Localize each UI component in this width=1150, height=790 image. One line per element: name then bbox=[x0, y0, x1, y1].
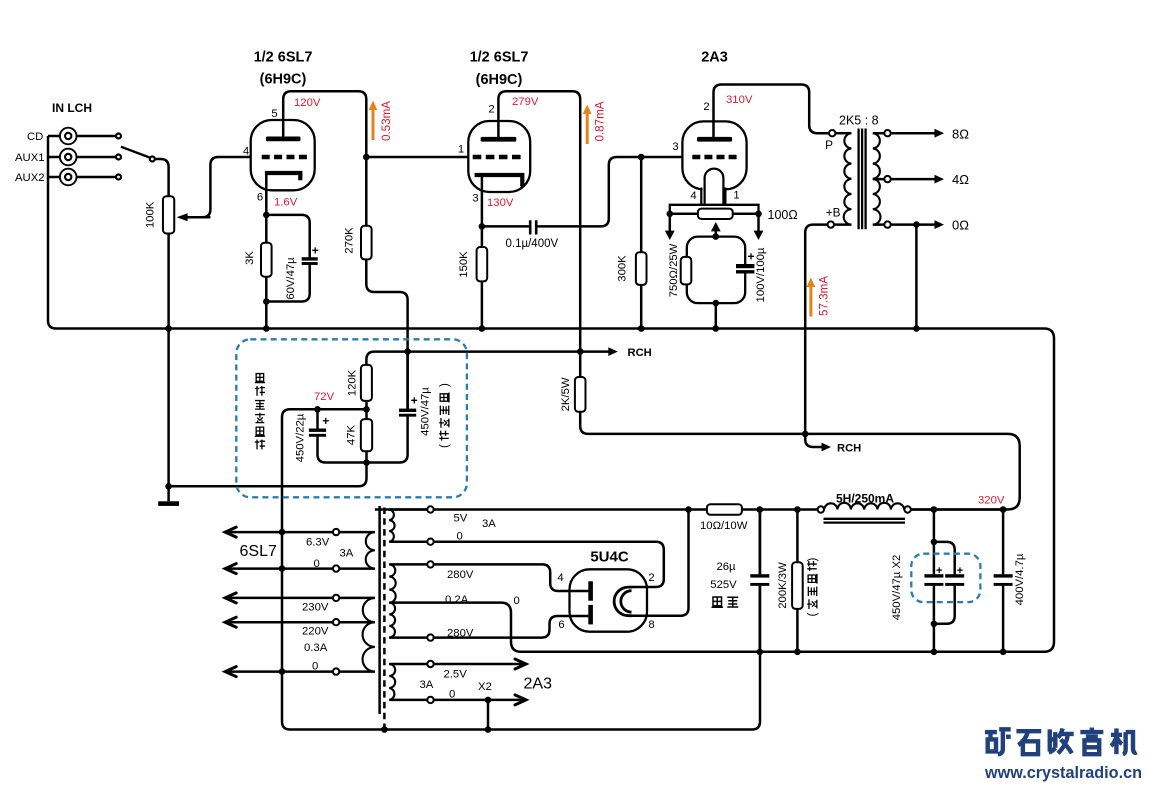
V1a grid (dashed) bbox=[262, 155, 307, 160]
label filament protection module CJK bbox=[255, 374, 265, 383]
wire 450V/47u decoupling cap branch bbox=[367, 352, 408, 463]
svg-text:4: 4 bbox=[243, 146, 249, 158]
svg-text:2.5V: 2.5V bbox=[444, 669, 468, 681]
svg-text:): ) bbox=[439, 383, 451, 387]
input jack AUX2 bbox=[60, 169, 77, 186]
capacitor C8 400V/4.7u bbox=[1000, 576, 1006, 585]
T1 primary terminals bbox=[333, 529, 339, 535]
svg-text:130V: 130V bbox=[487, 197, 514, 209]
wire 72V node row to 47K top bbox=[318, 408, 367, 411]
wire 72V node down to 6.3V heater line and to bottom return bbox=[282, 409, 760, 729]
orange current arrow 0.87mA bbox=[586, 112, 589, 144]
wire 450V/47u X2 split branches bbox=[934, 510, 955, 652]
wire 5V/2.5V winding leads + 2A3 filament arrows bbox=[389, 510, 525, 700]
svg-text:0.1µ/400V: 0.1µ/400V bbox=[506, 238, 559, 250]
wire bias loop bottom to ground bus bbox=[715, 303, 718, 328]
svg-text:4Ω: 4Ω bbox=[952, 172, 969, 187]
wire 2.5V X2 return drop bbox=[487, 700, 490, 730]
wire B+ rail from 5V winding through filter bbox=[434, 508, 1007, 511]
svg-text:2: 2 bbox=[703, 101, 709, 113]
T1 primary mains winding 230V/220V/0 bbox=[363, 598, 375, 672]
wire V1b plate riser to RCH/decoupled B+ node and 2K/5W down to B+ line bbox=[498, 91, 1019, 509]
svg-text:www.crystalradio.cn: www.crystalradio.cn bbox=[984, 763, 1142, 782]
wire 2A3 filament pins bar bbox=[670, 205, 759, 214]
wire 5U4C pin4 to 280V top tap bbox=[434, 564, 592, 591]
2A3 base neck opening bbox=[703, 187, 725, 192]
svg-text:100V/100µ: 100V/100µ bbox=[755, 247, 767, 302]
T2 P terminal bbox=[829, 130, 835, 136]
svg-text:8Ω: 8Ω bbox=[952, 126, 969, 141]
svg-text:+B: +B bbox=[826, 206, 841, 220]
svg-text:0: 0 bbox=[457, 531, 463, 543]
resistor R4 150K V1b cathode bbox=[477, 247, 488, 281]
svg-text:+: + bbox=[957, 565, 963, 577]
wire AUX2 jack line bbox=[48, 176, 119, 179]
svg-text:3: 3 bbox=[672, 141, 678, 153]
wire 26u oil cap column bbox=[759, 510, 762, 652]
arrows 2A3 filament drop bbox=[670, 214, 759, 231]
wire V1a grid row junction to V1b grid bbox=[366, 156, 468, 159]
svg-text:120V: 120V bbox=[294, 97, 321, 109]
input jack CD bbox=[60, 128, 77, 145]
svg-text:450V/22µ: 450V/22µ bbox=[294, 413, 306, 462]
svg-text:2K5 : 8: 2K5 : 8 bbox=[839, 114, 879, 128]
svg-text:4: 4 bbox=[557, 572, 563, 584]
svg-text:120K: 120K bbox=[346, 369, 358, 396]
resistor R7 47K divider bbox=[361, 419, 372, 451]
svg-text:200K/3W: 200K/3W bbox=[777, 562, 789, 609]
output transformer T2 core bbox=[859, 129, 866, 230]
svg-text:310V: 310V bbox=[726, 94, 753, 106]
2A3 grid (dashed) bbox=[692, 155, 736, 160]
svg-text:8: 8 bbox=[648, 619, 654, 631]
triode V1b envelope (1/2 6SL7) bbox=[468, 121, 530, 192]
svg-text:6: 6 bbox=[257, 192, 263, 204]
T1 secondary HV winding 280-0-280 bbox=[389, 564, 396, 637]
wire 300K from grid row to ground bus bbox=[640, 157, 643, 329]
svg-text:3K: 3K bbox=[244, 251, 256, 265]
arrows heater 6.3V to 6SL7 bbox=[225, 527, 236, 537]
wire 5U4C pin6 to 280V bottom tap bbox=[434, 616, 592, 638]
capacitor C1 60V/47u cathode bypass bbox=[307, 259, 313, 264]
capacitor C7a 450V/47u X2 bbox=[931, 576, 937, 585]
svg-text:+: + bbox=[312, 244, 319, 258]
wire OPT P lead bbox=[836, 132, 852, 135]
orange current arrow 0.53mA bbox=[372, 108, 375, 140]
arrow RCH right-channel bbox=[822, 443, 832, 452]
switch blade bbox=[121, 147, 150, 158]
wire 2A3 plate up over to OPT P terminal bbox=[714, 85, 829, 139]
V1b grid (dashed) bbox=[473, 155, 521, 160]
arrow RCH left-channel bbox=[608, 347, 618, 356]
arrows mains 230V/220V/0 bbox=[225, 593, 236, 603]
label (decoupling cap) CJK bbox=[439, 383, 451, 448]
wire mains winding 230V/220V/0 lines bbox=[226, 598, 375, 672]
svg-text:1: 1 bbox=[458, 144, 464, 156]
svg-text:220V: 220V bbox=[302, 626, 329, 638]
choke L1 core bbox=[824, 519, 906, 523]
svg-text:1: 1 bbox=[733, 190, 739, 202]
svg-text:6.3V: 6.3V bbox=[306, 537, 330, 549]
wire input left bus + ground bus + right drop + bottom rail + HV center tap riser bbox=[48, 136, 1054, 652]
resistor VR2 100R hum pot bbox=[698, 209, 733, 219]
choke terminals bbox=[818, 506, 824, 512]
T1 secondary 2.5V winding bbox=[389, 664, 395, 700]
resistor R10 10R/10W bbox=[707, 504, 742, 515]
svg-text:0: 0 bbox=[314, 558, 320, 570]
V1a cathode bbox=[265, 173, 300, 180]
svg-text:0: 0 bbox=[312, 661, 318, 673]
svg-text:5: 5 bbox=[271, 108, 277, 120]
svg-text:3A: 3A bbox=[420, 679, 434, 691]
capacitor C6 26u/525V oil can bbox=[757, 576, 763, 585]
svg-text:0.87mA: 0.87mA bbox=[594, 101, 607, 141]
svg-text:1.6V: 1.6V bbox=[274, 197, 298, 209]
svg-text:60V/47µ: 60V/47µ bbox=[285, 257, 297, 300]
wire 47K/120K column bbox=[365, 402, 368, 463]
VR2 wiper up arrow bbox=[711, 222, 721, 231]
svg-text:280V: 280V bbox=[447, 628, 474, 640]
svg-text:26µ: 26µ bbox=[716, 561, 736, 573]
svg-text:RCH: RCH bbox=[837, 443, 861, 455]
VR1 wiper arrow bbox=[186, 216, 210, 219]
T1 secondary terminals bbox=[427, 506, 433, 512]
svg-text:47K: 47K bbox=[345, 424, 357, 445]
2A3 plate bbox=[697, 137, 732, 142]
T1 secondary 5V winding bbox=[389, 510, 394, 542]
wire OPT secondary tap leads with 0-ohm ground drop bbox=[873, 133, 940, 328]
svg-text:57.3mA: 57.3mA bbox=[818, 276, 831, 316]
svg-text:AUX1: AUX1 bbox=[15, 152, 45, 164]
svg-text:+: + bbox=[936, 565, 942, 577]
power transformer T1 core (solid) bbox=[378, 506, 381, 714]
svg-text:525V: 525V bbox=[710, 579, 737, 591]
label (bleeder resistor) CJK bbox=[807, 558, 819, 617]
svg-text:(6H9C): (6H9C) bbox=[476, 72, 523, 88]
wire V1a cathode bypass branch (3K || 60V/47u) bbox=[266, 215, 309, 302]
wire 200K bleeder column bbox=[796, 510, 799, 652]
output transformer T2 secondary winding bbox=[873, 133, 881, 224]
svg-text:P: P bbox=[825, 138, 833, 152]
svg-text:230V: 230V bbox=[302, 602, 329, 614]
power transformer T1 shield (dashed) to ground return bbox=[383, 508, 386, 730]
svg-text:150K: 150K bbox=[458, 251, 470, 278]
svg-text:750Ω/25W: 750Ω/25W bbox=[668, 243, 680, 297]
svg-text:1/2 6SL7: 1/2 6SL7 bbox=[470, 50, 529, 66]
output transformer T2 primary winding bbox=[844, 133, 852, 224]
wire CD jack line bbox=[48, 135, 119, 138]
T1 primary heater winding 6.3V bbox=[366, 532, 375, 569]
resistor R3 270K plate load V1a bbox=[361, 226, 372, 260]
svg-text:X2: X2 bbox=[478, 681, 492, 693]
svg-text:RCH: RCH bbox=[628, 347, 652, 359]
svg-text:0: 0 bbox=[449, 689, 455, 701]
svg-text:0.3A: 0.3A bbox=[304, 642, 328, 654]
capacitor C5 100V/100u 2A3 cathode bypass bbox=[742, 266, 748, 272]
svg-text:(: ( bbox=[807, 613, 819, 617]
resistor R8 2K/5W decoupling bbox=[575, 377, 586, 412]
triode V1a envelope (1/2 6SL7) bbox=[251, 120, 315, 190]
svg-text:CD: CD bbox=[27, 131, 43, 143]
resistor R5 300K 2A3 grid leak bbox=[636, 252, 647, 285]
orange current arrow 57.3mA bbox=[809, 285, 812, 317]
svg-text:IN LCH: IN LCH bbox=[52, 101, 92, 115]
wire cathode bias loop (750R || 100V/100u) bbox=[687, 237, 745, 304]
resistor VR1 100K volume pot bbox=[163, 196, 174, 233]
svg-text:1/2 6SL7: 1/2 6SL7 bbox=[254, 50, 313, 66]
choke L1 5H/250mA winding bbox=[824, 503, 904, 510]
wire hum pot wiper arrow stem bbox=[715, 228, 718, 237]
svg-text:3: 3 bbox=[472, 193, 478, 205]
svg-text:AUX2: AUX2 bbox=[15, 172, 45, 184]
X2 caps dashed box bbox=[911, 554, 980, 602]
svg-text:270K: 270K bbox=[343, 227, 355, 254]
5U4C anode bars bbox=[588, 581, 593, 600]
switch contact AUX2 bbox=[116, 175, 121, 180]
svg-text:(: ( bbox=[439, 444, 451, 448]
svg-text:3A: 3A bbox=[482, 518, 496, 530]
filament protection module dashed box bbox=[236, 339, 467, 497]
svg-text:2A3: 2A3 bbox=[701, 50, 728, 66]
svg-text:5V: 5V bbox=[454, 513, 468, 525]
svg-text:0: 0 bbox=[514, 595, 520, 607]
ground symbol bbox=[158, 501, 179, 506]
wire bottom branch to protection module node bbox=[169, 463, 367, 487]
svg-text:300K: 300K bbox=[616, 255, 628, 282]
wire hum pot connections bbox=[670, 213, 759, 216]
resistor R11 200K/3W bleeder bbox=[792, 562, 803, 609]
resistor R9 750R/25W 2A3 cathode bbox=[681, 257, 692, 285]
svg-text:3A: 3A bbox=[340, 548, 354, 560]
svg-text:6: 6 bbox=[558, 619, 564, 631]
arrows OPT secondary 8/4/0 ohm bbox=[935, 129, 945, 138]
capacitor C3 450V/22u bbox=[314, 430, 320, 435]
svg-text:(6H9C): (6H9C) bbox=[260, 72, 307, 88]
svg-text:280V: 280V bbox=[447, 569, 474, 581]
wire pot bottom to ground bar bbox=[167, 234, 170, 502]
svg-text:450V/47µ: 450V/47µ bbox=[419, 387, 431, 436]
svg-text:0Ω: 0Ω bbox=[952, 218, 969, 233]
svg-text:72V: 72V bbox=[314, 391, 335, 403]
5U4C filament bbox=[614, 587, 632, 616]
svg-text:+: + bbox=[411, 394, 418, 408]
triode V2 envelope (2A3) bbox=[682, 121, 746, 189]
V1b plate bbox=[481, 137, 517, 142]
svg-text:+: + bbox=[748, 250, 755, 264]
svg-text:100K: 100K bbox=[144, 201, 156, 228]
svg-text:2: 2 bbox=[488, 104, 494, 116]
wire pot wiper to V1a grid bbox=[180, 157, 251, 217]
wire 450V/22u cap branch bbox=[318, 409, 367, 462]
svg-text:450V/47µ X2: 450V/47µ X2 bbox=[891, 555, 903, 621]
wire 5U4C pin2 to 5V winding 0 tap bbox=[434, 542, 664, 587]
svg-text:5U4C: 5U4C bbox=[590, 549, 629, 566]
wire V1b cathode to 150K and ground bbox=[481, 176, 484, 329]
svg-text:320V: 320V bbox=[978, 495, 1005, 507]
svg-text:4: 4 bbox=[690, 190, 696, 202]
wire RCH right-channel B+ branch arrow bbox=[805, 434, 827, 447]
arrows 2.5V winding to 2A3 bbox=[515, 659, 526, 669]
svg-text:2: 2 bbox=[648, 572, 654, 584]
wire V1a cathode to bias network bbox=[265, 174, 268, 329]
wire heater winding 6.3V lines to 6SL7 bbox=[226, 532, 375, 569]
capacitor C2 0.1u/400V coupling bbox=[532, 221, 536, 232]
svg-text:0.2A: 0.2A bbox=[445, 594, 469, 606]
V1a plate bbox=[266, 137, 301, 142]
svg-text:10Ω/10W: 10Ω/10W bbox=[700, 520, 748, 532]
input jack AUX1 bbox=[60, 149, 77, 166]
wire HV winding top/bottom leads bbox=[389, 564, 434, 637]
switch contact AUX1 bbox=[116, 155, 121, 160]
V1b cathode bbox=[475, 175, 523, 187]
switch contact CD bbox=[116, 134, 121, 139]
wire V1a plate up over to junction and down through 270K to decoupling node bbox=[283, 91, 407, 409]
svg-text:+: + bbox=[322, 414, 329, 428]
wire OPT +B terminal riser down to B+ line bbox=[805, 225, 827, 434]
wire OPT +B lead bbox=[834, 223, 851, 226]
rectifier U1 envelope (5U4C) bbox=[570, 569, 648, 631]
svg-text:279V: 279V bbox=[512, 96, 539, 108]
svg-text:100Ω: 100Ω bbox=[768, 208, 798, 222]
svg-text:400V/4.7µ: 400V/4.7µ bbox=[1014, 553, 1026, 605]
logo crystalradio Chinese characters bbox=[985, 729, 1011, 754]
resistor R2 3K cathode bias V1a bbox=[261, 243, 272, 277]
T2 +B terminal bbox=[828, 221, 834, 227]
svg-text:2K/5W: 2K/5W bbox=[560, 377, 572, 411]
resistor R6 120K divider bbox=[361, 365, 372, 401]
wire RCH(L-channel B+) row: 120K top to arrow bbox=[366, 352, 612, 366]
wire coupling row: cathode node through 0.1u cap up to 2A3 grid row bbox=[482, 157, 683, 226]
switch pivot bbox=[150, 157, 155, 162]
svg-text:2A3: 2A3 bbox=[524, 676, 553, 693]
wire 5V winding top lead bbox=[375, 508, 434, 511]
2A3 filament dome bbox=[705, 169, 724, 205]
wire 5U4C pin8 riser to B+ rail bbox=[632, 510, 689, 616]
svg-text:0.53mA: 0.53mA bbox=[380, 101, 393, 141]
svg-text:5H/250mA: 5H/250mA bbox=[836, 492, 894, 506]
T2 secondary terminals bbox=[884, 130, 890, 136]
capacitor C4 450V/47u decoupling bbox=[404, 410, 410, 415]
wire 400V/4.7u cap column bbox=[1002, 510, 1005, 652]
wire AUX1 jack line bbox=[48, 156, 119, 159]
svg-text:6SL7: 6SL7 bbox=[240, 543, 277, 560]
junction dots bbox=[165, 325, 172, 332]
svg-text:): ) bbox=[807, 558, 819, 562]
wire switch pivot to volume pot bbox=[154, 159, 169, 196]
capacitor C7b 450V/47u X2 bbox=[952, 576, 958, 585]
